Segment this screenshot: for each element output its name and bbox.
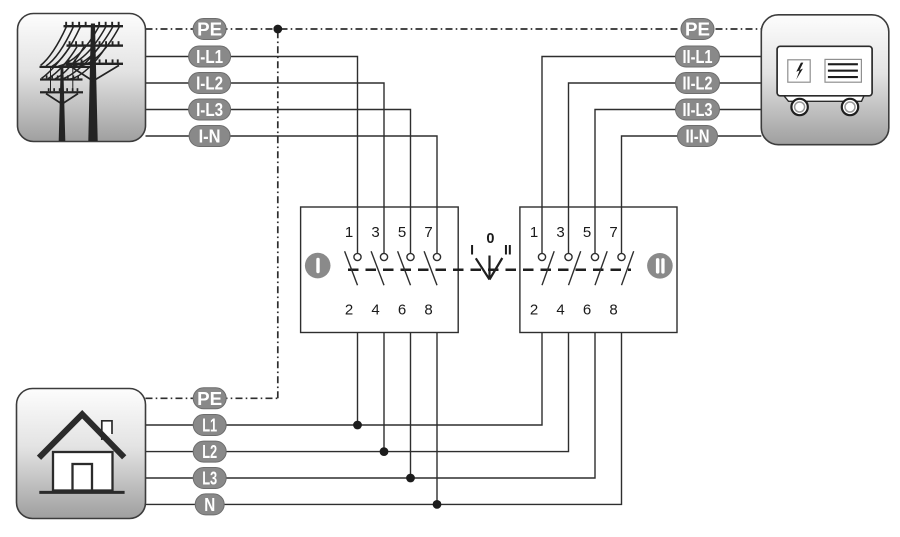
- contact circle I-7: [433, 253, 440, 260]
- svg-text:5: 5: [398, 224, 406, 241]
- switch blade II-1: [542, 251, 554, 285]
- svg-text:6: 6: [398, 302, 406, 319]
- label pill II-L1: [676, 46, 720, 67]
- generator wheel left: [791, 99, 807, 115]
- svg-text:PE: PE: [197, 389, 222, 409]
- pin wire I-7: [436, 207, 438, 253]
- node N junction: [433, 500, 442, 509]
- svg-text:1: 1: [530, 224, 538, 241]
- wire I-L1: [146, 57, 358, 254]
- label pill I-L2: [189, 73, 231, 94]
- label pill II-N: [678, 126, 718, 147]
- wire I-L3: [146, 110, 411, 254]
- mechanical coupling dashed line: [348, 269, 631, 272]
- wire switch I pin 2 to L1: [357, 285, 359, 425]
- badge circle I: [305, 253, 331, 279]
- wire PE top (grid to generator, dash-dot): [146, 28, 762, 30]
- wire I-N: [146, 136, 438, 253]
- house door: [73, 464, 93, 491]
- label pill II-L3: [676, 99, 720, 120]
- svg-text:3: 3: [371, 224, 379, 241]
- node L3 junction: [406, 474, 415, 483]
- svg-text:5: 5: [583, 224, 591, 241]
- wire II-L2: [569, 83, 762, 253]
- wire II-N: [622, 136, 762, 253]
- svg-text:I-N: I-N: [199, 127, 221, 147]
- house body: [53, 452, 113, 491]
- wire II-L1: [542, 57, 761, 254]
- label pill PE (house): [193, 388, 226, 409]
- house ground line: [39, 491, 124, 494]
- contact circle II-7: [618, 253, 625, 260]
- svg-text:8: 8: [424, 302, 432, 319]
- svg-text:I-L1: I-L1: [196, 47, 223, 67]
- pin wire II-5: [594, 207, 596, 253]
- contact circle II-3: [565, 253, 572, 260]
- svg-text:II-N: II-N: [686, 127, 710, 147]
- svg-text:L1: L1: [202, 416, 217, 436]
- pin wire II-3: [568, 207, 570, 253]
- node L1 junction: [353, 421, 362, 430]
- svg-text:L2: L2: [202, 442, 217, 462]
- contact circle II-1: [538, 253, 545, 260]
- generator body: [777, 46, 872, 96]
- generator vent plate: [825, 59, 861, 82]
- svg-text:0: 0: [486, 231, 494, 247]
- label pill N: [195, 494, 224, 515]
- generator wheel right: [842, 99, 858, 115]
- generator chassis: [784, 96, 864, 102]
- svg-text:II: II: [504, 241, 512, 257]
- wire L1 (house to switch II pin 2): [146, 285, 543, 425]
- switch box II outline: [520, 207, 677, 333]
- label pill PE (top right): [681, 19, 714, 40]
- generator icon: [761, 15, 889, 145]
- svg-text:II-L2: II-L2: [683, 74, 713, 94]
- switch blade I-5: [398, 251, 411, 285]
- wire PE vertical riser (dash-dot): [277, 29, 279, 398]
- pin wire II-7: [621, 207, 623, 253]
- pin wire I-3: [383, 207, 385, 253]
- wire switch I pin 8 to N: [436, 285, 438, 504]
- svg-text:2: 2: [345, 302, 353, 319]
- label pill L2: [193, 441, 226, 462]
- label pill L1: [193, 415, 226, 436]
- node L2 junction: [380, 447, 389, 456]
- house chimney: [102, 421, 112, 440]
- svg-text:1: 1: [345, 224, 353, 241]
- label pill L3: [193, 468, 226, 489]
- contact circle I-5: [407, 253, 414, 260]
- badge circle II: [647, 253, 673, 279]
- contact circle II-5: [591, 253, 598, 260]
- wire L2 (house to switch II pin 4): [146, 285, 569, 451]
- wire I-L2: [146, 83, 385, 253]
- pin wire II-1: [541, 207, 543, 253]
- svg-text:L3: L3: [202, 469, 217, 489]
- svg-text:2: 2: [530, 302, 538, 319]
- wire PE house horizontal (dash-dot): [146, 397, 278, 399]
- utility grid icon: [18, 14, 146, 142]
- label pill PE (top left): [193, 19, 226, 40]
- switch blade II-7: [622, 251, 634, 285]
- svg-text:7: 7: [424, 224, 432, 241]
- svg-text:I-L2: I-L2: [196, 74, 223, 94]
- switch blade I-1: [345, 251, 358, 285]
- label pill II-L2: [676, 73, 720, 94]
- house icon: [17, 389, 146, 519]
- svg-text:4: 4: [556, 302, 564, 319]
- svg-text:8: 8: [609, 302, 617, 319]
- svg-text:I-L3: I-L3: [196, 100, 223, 120]
- label pill I-L1: [189, 46, 231, 67]
- contact circle I-3: [380, 253, 387, 260]
- label pill I-N: [189, 126, 230, 147]
- svg-text:N: N: [204, 495, 215, 515]
- wire L3 (house to switch II pin 6): [146, 285, 596, 478]
- wire switch I pin 4 to L2: [383, 285, 385, 451]
- svg-text:II-L1: II-L1: [683, 47, 713, 67]
- svg-text:PE: PE: [685, 20, 710, 40]
- svg-text:3: 3: [556, 224, 564, 241]
- generator lightning plate: [788, 60, 810, 82]
- switch box I outline: [301, 207, 459, 333]
- svg-text:I: I: [470, 242, 474, 258]
- wire switch I pin 6 to L3: [410, 285, 412, 478]
- house roof: [39, 414, 124, 458]
- wire II-L3: [595, 110, 761, 254]
- node PE junction: [273, 25, 282, 34]
- pin wire I-5: [410, 207, 412, 253]
- switch blade I-3: [371, 251, 384, 285]
- switch blade II-3: [569, 251, 581, 285]
- svg-text:7: 7: [609, 224, 617, 241]
- selector lever (position 0): [476, 256, 503, 280]
- wire N (house to switch II pin 8): [146, 285, 622, 504]
- lightning bolt: [796, 63, 803, 80]
- switch blade II-5: [595, 251, 607, 285]
- svg-text:PE: PE: [197, 20, 222, 40]
- switch blade I-7: [424, 251, 437, 285]
- svg-text:4: 4: [371, 302, 379, 319]
- contact circle I-1: [354, 253, 361, 260]
- svg-text:II-L3: II-L3: [683, 100, 713, 120]
- label pill I-L3: [189, 99, 231, 120]
- pin wire I-1: [357, 207, 359, 253]
- svg-text:6: 6: [583, 302, 591, 319]
